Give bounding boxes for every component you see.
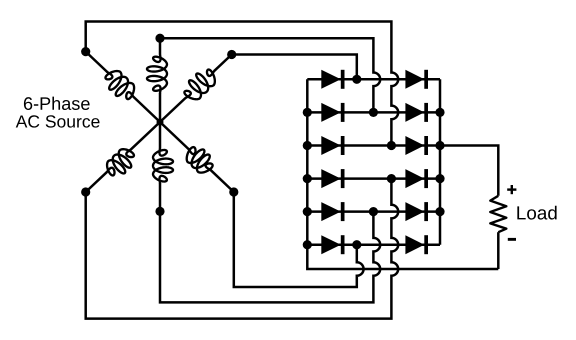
label - (negative terminal) [508, 238, 516, 241]
diode D12 [405, 235, 428, 254]
junction left bus row 3 [303, 141, 312, 150]
resistor Load [490, 196, 506, 232]
wire phase-3 feed (upper-left arm to diode row 3, hops rows 1-2) [86, 22, 399, 146]
junction right bus row 2 [435, 108, 444, 117]
inductor winding L6 (upper-left arm) [86, 52, 160, 122]
label + (positive terminal) [507, 185, 516, 194]
wire phase-2 feed (top arm to diode row 2, hops row 1) [160, 38, 380, 112]
diode D10 [405, 202, 428, 221]
node phase-2 terminal [155, 34, 164, 43]
wire positive bus (right cathode bus) [439, 79, 442, 244]
diode D6 [405, 136, 428, 155]
inductor winding L1 (top arm) [147, 38, 167, 122]
label Load [517, 206, 556, 220]
node star center [157, 119, 164, 126]
wire diode row 3 horizontal [307, 144, 440, 147]
junction right bus row 3 [435, 141, 444, 150]
junction row3 phase [387, 141, 396, 150]
diode D9 [321, 202, 344, 221]
wire negative bus (left anode bus) and load bottom line [307, 79, 498, 269]
node phase-4 terminal [81, 187, 90, 196]
wire phase-4 feed (diode row 4 down to lower-left arm, hops rows 5,6 and load line) [86, 179, 399, 319]
junction row6 phase [352, 240, 361, 249]
wire positive output tap to load [440, 146, 498, 196]
junction left bus row 5 [303, 207, 312, 216]
wire load bottom lead [497, 232, 500, 269]
diode D7 [321, 169, 344, 188]
junction row2 phase [369, 108, 378, 117]
junction left bus row 2 [303, 108, 312, 117]
junction right bus row 4 [435, 174, 444, 183]
diode D11 [321, 235, 344, 254]
node phase-6 terminal [229, 187, 238, 196]
wire diode row 5 horizontal [307, 210, 440, 213]
inductor winding L2 (upper-right arm) [160, 55, 232, 123]
junction row1 phase [352, 75, 361, 84]
node phase-1 terminal [227, 50, 236, 59]
diode D4 [405, 103, 428, 122]
wire diode row 1 horizontal [307, 78, 440, 81]
wire phase-1 feed (upper-right arm to diode row 1) [232, 55, 357, 80]
diode D8 [405, 169, 428, 188]
junction row5 phase [369, 207, 378, 216]
diode D5 [321, 136, 344, 155]
junction left bus row 4 [303, 174, 312, 183]
inductor winding L4 (bottom arm) [153, 122, 173, 211]
wire phase-6 feed (diode row 6 down to lower-right arm, hops load line) [234, 192, 364, 287]
junction right bus row 5 [435, 207, 444, 216]
node phase-5 terminal [155, 207, 164, 216]
inductor winding L5 (lower-left arm) [86, 122, 160, 192]
junction row4 phase [387, 174, 396, 183]
wire diode row 4 horizontal [307, 177, 440, 180]
node phase-3 terminal [81, 47, 90, 56]
inductor winding L3 (lower-right arm) [160, 122, 234, 192]
wire phase-5 feed (diode row 5 down to bottom arm, hops row 6 and load line) [160, 211, 380, 302]
diode D3 [321, 103, 344, 122]
diode D2 [405, 70, 428, 89]
junction left bus row 6 [303, 240, 312, 249]
wire diode row 6 horizontal [307, 243, 440, 246]
wire diode row 2 horizontal [307, 111, 440, 114]
label 6-Phase AC Source [24, 97, 90, 110]
diode D1 [321, 70, 344, 89]
